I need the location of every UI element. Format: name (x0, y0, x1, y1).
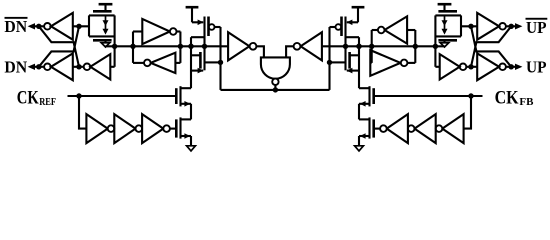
svg-text:UP: UP (526, 18, 547, 37)
svg-text:CK: CK (17, 88, 39, 108)
svg-text:CK: CK (495, 88, 520, 108)
svg-text:DN: DN (4, 17, 27, 36)
svg-text:DN: DN (4, 57, 27, 76)
svg-text:UP: UP (526, 57, 547, 76)
svg-text:REF: REF (39, 96, 56, 108)
svg-text:FB: FB (519, 96, 534, 108)
